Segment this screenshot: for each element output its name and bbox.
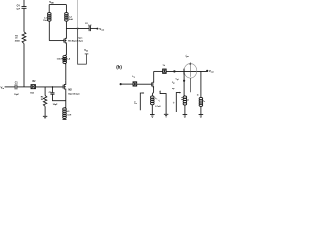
svg-text:M2: M2 [68,88,72,91]
svg-text:R2: R2 [33,81,37,83]
svg-text:Lb: Lb [187,99,189,101]
svg-text:id: id [173,102,175,104]
svg-text:0.7nH: 0.7nH [155,106,161,108]
svg-text:Vin: Vin [1,85,5,90]
svg-text:C4: C4 [17,4,21,7]
svg-text:20kΩ: 20kΩ [15,40,20,42]
svg-text:L1: L1 [44,17,47,19]
svg-text:1.8nH: 1.8nH [57,58,63,60]
svg-text:(b): (b) [116,64,122,69]
svg-text:1n: 1n [197,95,199,97]
svg-text:2k: 2k [41,99,44,101]
svg-text:igm: igm [186,54,190,58]
svg-text:Cgs: Cgs [172,82,175,84]
svg-text:5μm: 5μm [78,38,82,40]
svg-text:L4: L4 [67,57,70,60]
svg-text:2pF: 2pF [88,25,92,27]
svg-text:Cgd: Cgd [176,79,179,81]
svg-text:10pF: 10pF [53,104,59,106]
svg-text:L3: L3 [67,111,70,113]
svg-text:1pF: 1pF [16,9,20,11]
svg-text:1kΩ: 1kΩ [30,93,34,95]
svg-text:is: is [159,100,161,102]
svg-text:50μm/0.6μm: 50μm/0.6μm [68,93,80,95]
svg-text:C1: C1 [15,82,19,84]
svg-text:Vb2: Vb2 [84,48,88,53]
svg-text:15nH: 15nH [43,20,48,22]
svg-text:Ld: Ld [163,64,165,67]
svg-text:L2: L2 [69,16,72,18]
svg-text:Vout: Vout [209,69,214,74]
svg-text:vgs: vgs [172,88,175,90]
svg-text:VDD: VDD [49,0,54,4]
svg-text:1nH: 1nH [67,115,71,117]
svg-text:Lc: Lc [203,101,205,103]
svg-text:10pF: 10pF [14,94,19,96]
svg-text:Lg: Lg [132,76,134,79]
svg-text:20: 20 [15,38,17,40]
svg-text:8nH: 8nH [69,19,73,21]
svg-text:Zin: Zin [134,103,137,105]
svg-text:Ls: Ls [155,98,157,100]
svg-text:M1 40μm/0.6μm: M1 40μm/0.6μm [68,39,83,42]
svg-text:Vout: Vout [99,27,104,32]
